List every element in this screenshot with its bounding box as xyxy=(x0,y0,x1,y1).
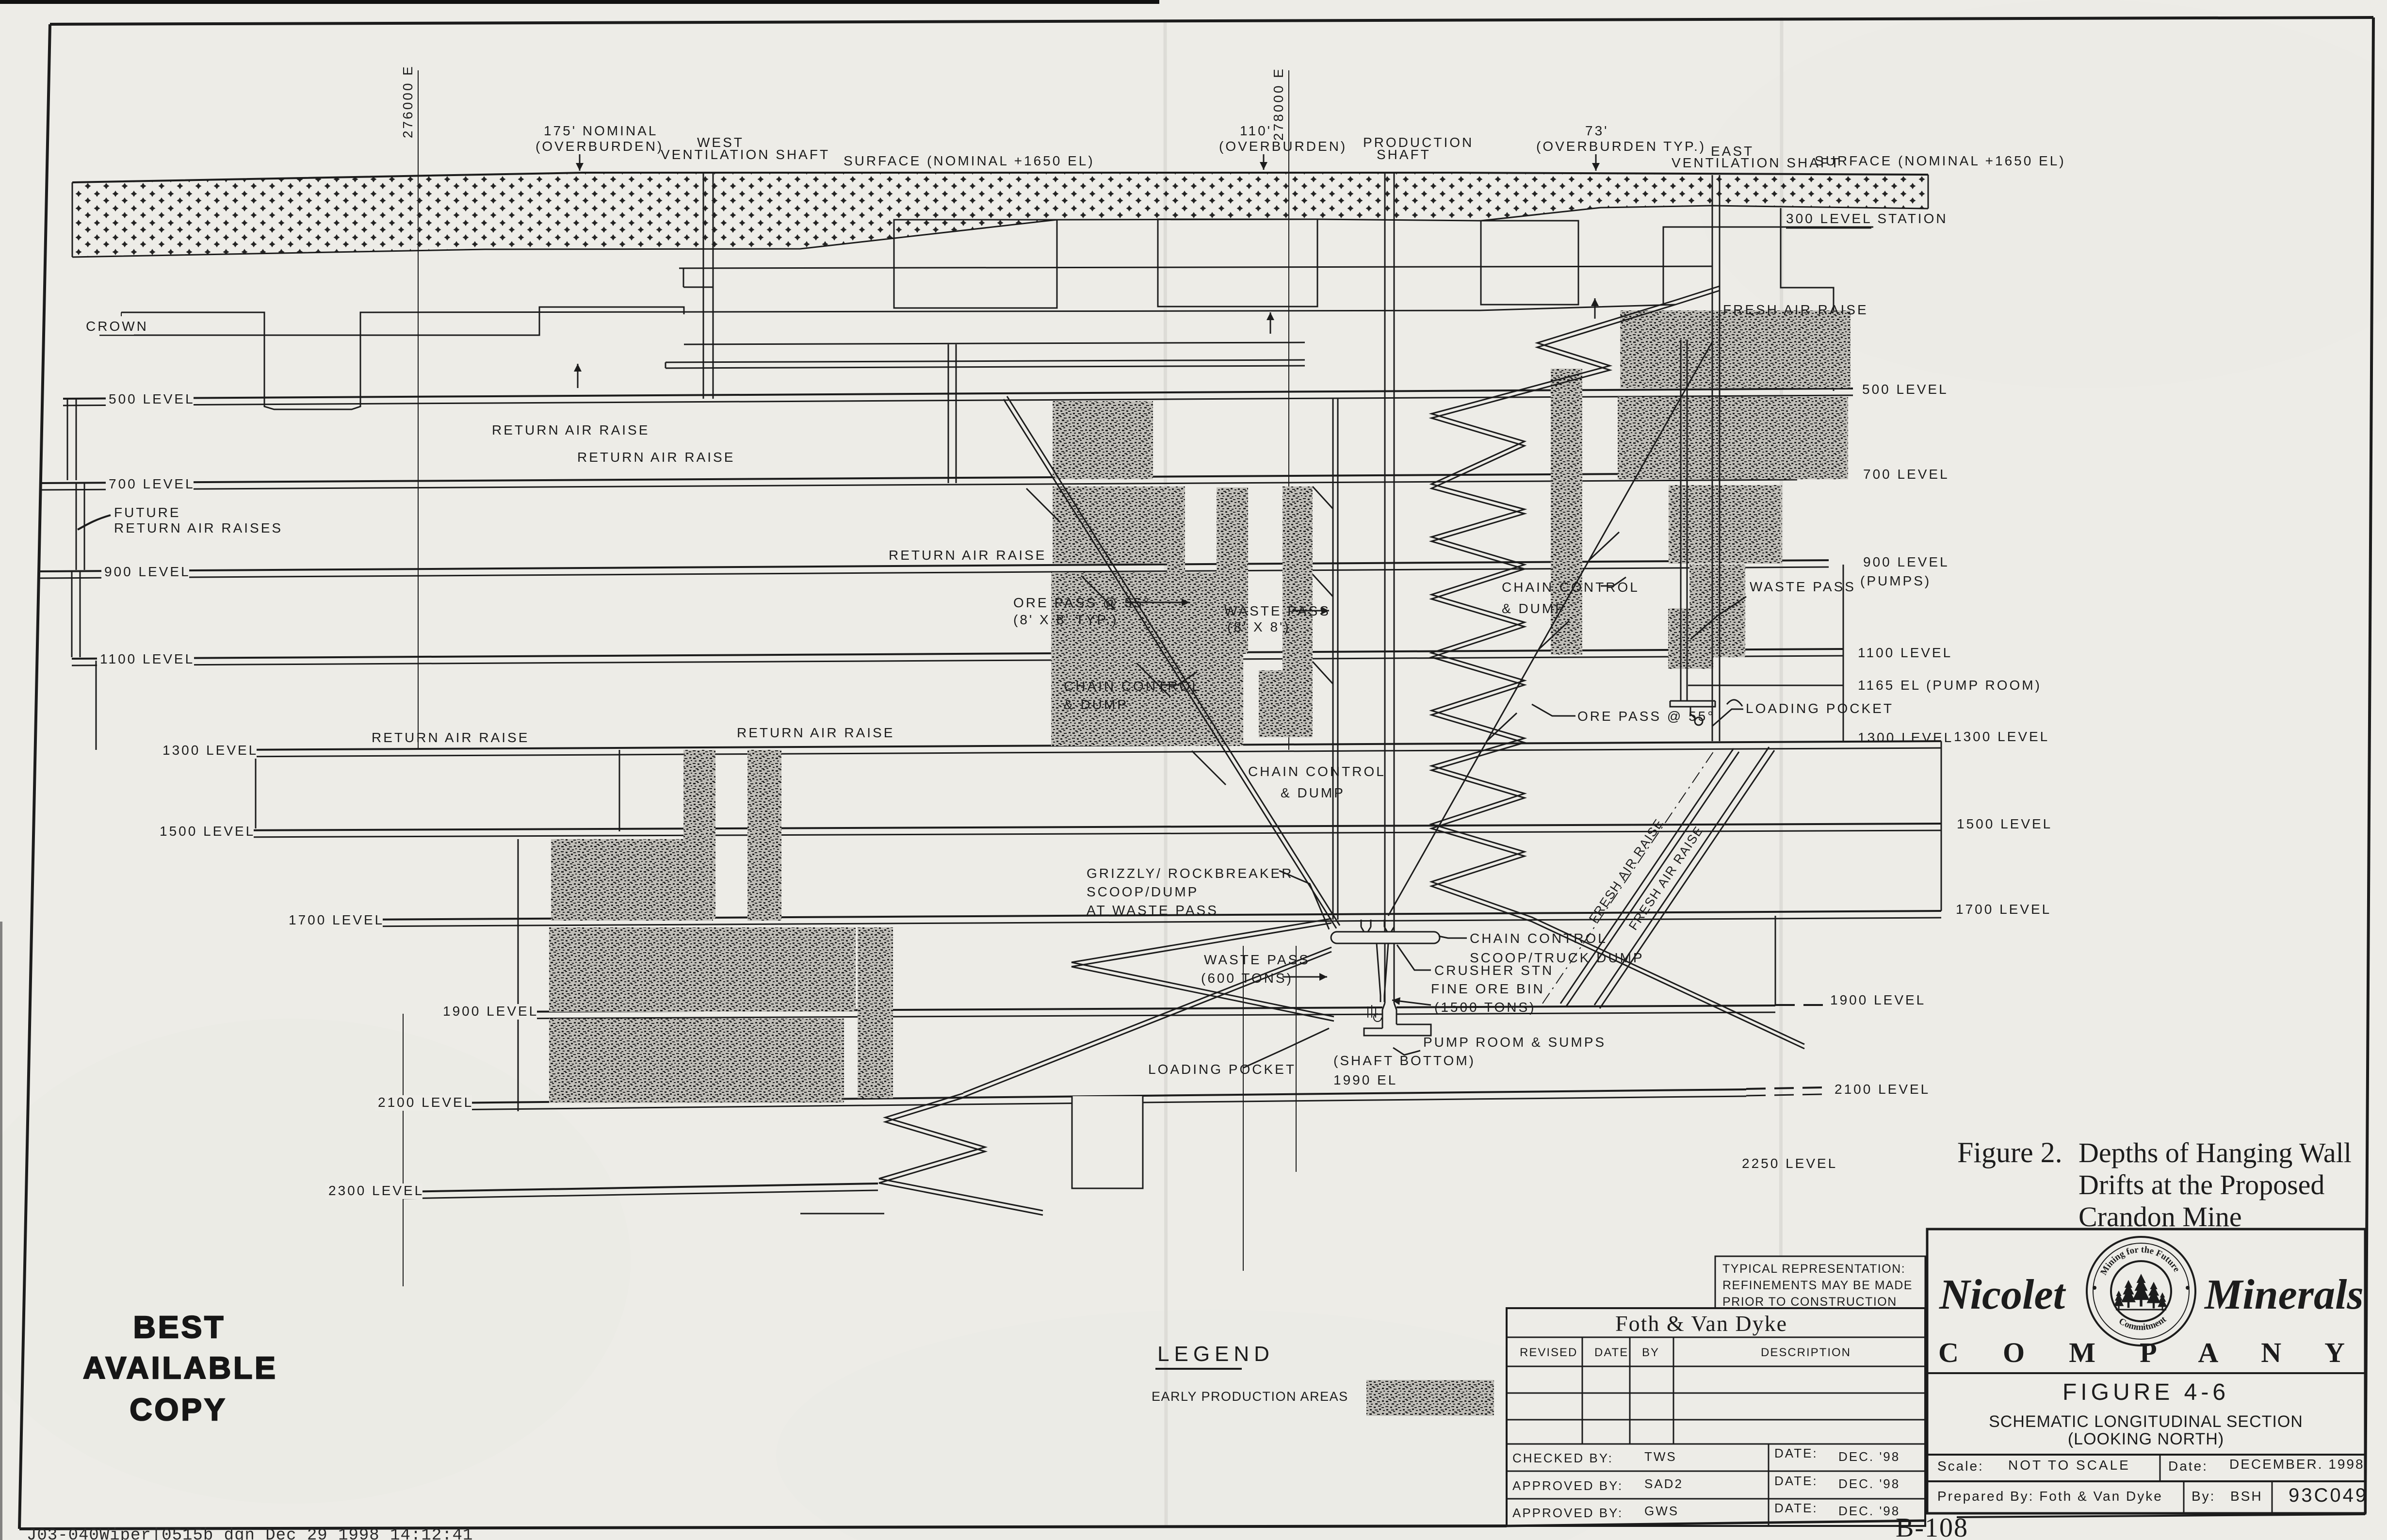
gray block 900-1300 big xyxy=(1051,572,1243,746)
band right edge xyxy=(1928,175,1929,209)
svg-text:Date:: Date: xyxy=(2168,1459,2208,1474)
arrow down 73 xyxy=(1595,154,1597,171)
gray column east tall xyxy=(1551,369,1582,655)
svg-text:RETURN AIR RAISE: RETURN AIR RAISE xyxy=(492,422,650,438)
svg-text:278000 E: 278000 E xyxy=(1271,67,1286,141)
svg-text:RETURN AIR RAISE: RETURN AIR RAISE xyxy=(737,725,894,740)
waste pass chute y=1003 xyxy=(1313,486,1333,509)
arrow up 110 xyxy=(1270,312,1271,334)
svg-text:EARLY PRODUCTION AREAS: EARLY PRODUCTION AREAS xyxy=(1152,1389,1348,1404)
label CROWN left xyxy=(83,319,134,335)
svg-text:SCHEMATIC LONGITUDINAL SECTION: SCHEMATIC LONGITUDINAL SECTION xyxy=(1989,1412,2303,1431)
svg-text:PUMP ROOM & SUMPS: PUMP ROOM & SUMPS xyxy=(1423,1035,1606,1050)
svg-text:& DUMP: & DUMP xyxy=(1064,697,1128,712)
gray column 700-1100 b xyxy=(1217,487,1248,654)
gray block 1100-1300 right xyxy=(1259,670,1313,737)
chain control chute at level y=1546 xyxy=(1192,751,1226,785)
svg-text:1900 LEVEL: 1900 LEVEL xyxy=(443,1004,538,1019)
step 1700-1900 right xyxy=(1775,916,1776,1005)
svg-text:Foth & Van Dyke: Foth & Van Dyke xyxy=(1615,1311,1787,1336)
fresh air raise 2 xyxy=(1594,747,1769,1005)
gray block 1100-1300 east xyxy=(1668,608,1713,669)
svg-text:700 LEVEL: 700 LEVEL xyxy=(1863,467,1949,482)
svg-text:FRESH AIR RAISE: FRESH AIR RAISE xyxy=(1723,302,1868,317)
svg-text:DATE:: DATE: xyxy=(1774,1446,1818,1460)
logo trees xyxy=(2121,1280,2136,1308)
gray column 1300-1700 a xyxy=(683,750,715,919)
east step 900-1300 xyxy=(1843,565,1844,742)
svg-text:& DUMP: & DUMP xyxy=(1281,785,1345,800)
svg-text:SHAFT: SHAFT xyxy=(1377,147,1431,162)
svg-text:ORE PASS @ 55°: ORE PASS @ 55° xyxy=(1577,709,1715,724)
gray block 700-900 east xyxy=(1669,485,1782,564)
svg-text:1990 EL: 1990 EL xyxy=(1333,1072,1397,1087)
svg-text:Nicolet: Nicolet xyxy=(1939,1271,2066,1318)
company logo xyxy=(2087,1237,2195,1345)
svg-text:1500 LEVEL: 1500 LEVEL xyxy=(1957,816,2052,831)
svg-text:TYPICAL REPRESENTATION:: TYPICAL REPRESENTATION: xyxy=(1722,1262,1905,1276)
east ore pass chute y=1155 xyxy=(1589,532,1619,560)
svg-text:REFINEMENTS MAY BE MADE: REFINEMENTS MAY BE MADE xyxy=(1722,1279,1913,1292)
fold crease right xyxy=(1781,17,1782,1516)
svg-text:RETURN AIR RAISE: RETURN AIR RAISE xyxy=(372,730,529,745)
svg-text:CHAIN CONTROL: CHAIN CONTROL xyxy=(1064,679,1202,694)
west return air raise duct xyxy=(948,344,949,483)
chain control chute at level y=1005 xyxy=(1026,488,1060,522)
label 700 LEVEL left xyxy=(106,477,194,492)
1900 level line xyxy=(511,1005,1775,1012)
label 500 LEVEL left xyxy=(106,392,194,407)
svg-text:Crandon Mine: Crandon Mine xyxy=(2078,1201,2242,1232)
label 1500 LEVEL left xyxy=(157,824,254,840)
svg-text:1300 LEVEL: 1300 LEVEL xyxy=(1954,729,2049,744)
svg-text:276000 E: 276000 E xyxy=(400,65,415,138)
label 2300 LEVEL left xyxy=(325,1183,422,1199)
svg-text:(OVERBURDEN TYP.): (OVERBURDEN TYP.) xyxy=(1536,139,1706,154)
label 1900 LEVEL left xyxy=(440,1004,537,1020)
notch 2 (110ft overburden ref) xyxy=(1158,219,1317,307)
left step 1100-1300 xyxy=(96,661,97,750)
lower zigzag below 2100 xyxy=(879,1098,1043,1215)
frame border xyxy=(50,17,2373,24)
700 level line xyxy=(40,473,1797,483)
east collar step xyxy=(1781,208,1834,391)
notch 1 (175ft overburden ref) xyxy=(894,220,1057,308)
step 1500-2100 left boundary xyxy=(518,839,519,1111)
svg-text:1500 LEVEL: 1500 LEVEL xyxy=(160,824,255,839)
svg-text:SURFACE (NOMINAL +1650 EL): SURFACE (NOMINAL +1650 EL) xyxy=(1815,153,2066,168)
svg-text:By:: By: xyxy=(2192,1489,2215,1504)
shaft bottom structure xyxy=(1364,1003,1431,1036)
svg-text:500 LEVEL: 500 LEVEL xyxy=(109,391,195,406)
bedrock line xyxy=(72,206,1928,257)
svg-text:1300 LEVEL: 1300 LEVEL xyxy=(1858,730,1953,745)
west ventilation shaft xyxy=(703,173,704,399)
svg-text:SURFACE (NOMINAL +1650 EL): SURFACE (NOMINAL +1650 EL) xyxy=(844,153,1095,168)
svg-text:RETURN AIR RAISES: RETURN AIR RAISES xyxy=(114,520,283,535)
svg-text:1700 LEVEL: 1700 LEVEL xyxy=(289,912,384,927)
svg-text:175' NOMINAL: 175' NOMINAL xyxy=(544,123,658,138)
svg-text:1165 EL (PUMP ROOM): 1165 EL (PUMP ROOM) xyxy=(1858,678,2042,693)
left step 1300-1500 xyxy=(255,755,257,828)
svg-text:73': 73' xyxy=(1585,123,1609,138)
gray block 1700-1900 xyxy=(549,927,856,1012)
2300 level line xyxy=(403,1183,878,1192)
svg-text:DECEMBER. 1998: DECEMBER. 1998 xyxy=(2229,1457,2365,1472)
gray column 900-1100 east xyxy=(1689,565,1745,657)
ramp V between 1700-2100 xyxy=(1072,923,1334,1021)
svg-text:RETURN AIR RAISE: RETURN AIR RAISE xyxy=(889,548,1046,563)
gray block 700-900 west xyxy=(1053,486,1184,564)
crown step outline P with notches xyxy=(99,307,684,335)
left raise duct 900-1100 xyxy=(71,571,73,657)
pump room tee 1165 xyxy=(1670,701,1715,707)
crown inner outline Q xyxy=(121,305,1675,409)
scoop funnels above crusher xyxy=(1361,927,1364,932)
svg-text:NOT TO SCALE: NOT TO SCALE xyxy=(2008,1458,2130,1473)
svg-text:1300 LEVEL: 1300 LEVEL xyxy=(162,743,258,758)
ore pass at 55 deg (west) xyxy=(1004,399,1336,928)
svg-text:Drifts at the Proposed: Drifts at the Proposed xyxy=(2078,1169,2324,1200)
svg-text:DEC. '98: DEC. '98 xyxy=(1838,1504,1900,1518)
svg-text:LOADING POCKET: LOADING POCKET xyxy=(1746,701,1894,716)
gray block 1900-2100 xyxy=(549,1019,844,1103)
svg-text:CRUSHER STN: CRUSHER STN xyxy=(1434,963,1554,978)
left raise duct 700-900 xyxy=(76,483,77,570)
leader vertical x2563 xyxy=(1243,946,1244,1271)
label 1300 LEVEL left xyxy=(160,743,257,759)
svg-text:VENTILATION SHAFT: VENTILATION SHAFT xyxy=(661,147,830,162)
ore pass at 55 deg (east) xyxy=(1388,342,1712,916)
svg-text:Depths of Hanging Wall: Depths of Hanging Wall xyxy=(2078,1137,2352,1168)
label 1100 LEVEL left xyxy=(97,652,194,667)
fresh air raise centerline xyxy=(1543,748,1716,1004)
svg-text:93C049: 93C049 xyxy=(2289,1485,2368,1506)
svg-text:DATE:: DATE: xyxy=(1774,1474,1818,1488)
overburden stipple band xyxy=(72,173,1928,257)
svg-text:TWS: TWS xyxy=(1644,1449,1677,1464)
leader vertical x831 xyxy=(403,1014,404,1286)
left raise duct 500-700 xyxy=(67,399,68,480)
300 level station branch xyxy=(1663,227,1873,305)
svg-text:900 LEVEL: 900 LEVEL xyxy=(1863,554,1949,569)
fresh air raise 1 xyxy=(1560,748,1734,1004)
svg-text:300 LEVEL STATION: 300 LEVEL STATION xyxy=(1786,211,1948,226)
svg-text:SCOOP/DUMP: SCOOP/DUMP xyxy=(1087,884,1199,899)
crown dash tick xyxy=(121,312,122,334)
svg-text:(PUMPS): (PUMPS) xyxy=(1860,573,1931,588)
fine ore bin xyxy=(1377,943,1380,995)
svg-text:Scale:: Scale: xyxy=(1937,1459,1984,1474)
svg-text:DATE: DATE xyxy=(1594,1346,1628,1359)
900 level line xyxy=(40,560,1829,571)
svg-text:2250 LEVEL: 2250 LEVEL xyxy=(1742,1156,1837,1171)
right stope box 1300-1700 xyxy=(1941,741,1942,911)
leader vertical x2672 xyxy=(1296,946,1297,1172)
underline 300 level xyxy=(1786,227,1871,229)
svg-text:CROWN: CROWN xyxy=(86,319,148,334)
svg-text:Figure 2.: Figure 2. xyxy=(1957,1136,2062,1168)
east waste pass vertical xyxy=(1680,340,1682,701)
svg-text:2300 LEVEL: 2300 LEVEL xyxy=(328,1183,424,1198)
gray block 1500-1700 xyxy=(551,839,713,921)
east ventilation shaft xyxy=(1712,175,1713,741)
nicolet minerals title block xyxy=(1927,1229,2365,1513)
svg-text:1100 LEVEL: 1100 LEVEL xyxy=(100,651,195,666)
svg-text:CHAIN CONTROL: CHAIN CONTROL xyxy=(1470,931,1608,946)
svg-text:DEC. '98: DEC. '98 xyxy=(1838,1449,1900,1464)
svg-text:FINE ORE BIN: FINE ORE BIN xyxy=(1431,981,1545,996)
step 1300-1500 mid xyxy=(619,750,620,831)
arrow up 175 xyxy=(577,364,579,388)
loading pocket bulb east xyxy=(1695,717,1703,725)
label 900 LEVEL left xyxy=(101,565,189,580)
gray block 500-700 east xyxy=(1618,397,1848,479)
svg-text:(8' X 8' TYP.): (8' X 8' TYP.) xyxy=(1013,612,1119,627)
east ore pass chute y=1338 xyxy=(1539,621,1569,649)
legend swatch xyxy=(1366,1380,1494,1416)
1165 EL pump room line xyxy=(1688,685,1843,686)
svg-text:FIGURE 4-6: FIGURE 4-6 xyxy=(2062,1379,2229,1405)
gray column 700-1300 xyxy=(1283,486,1313,737)
grid line 276000 E xyxy=(418,70,419,750)
L1 left step xyxy=(683,287,713,288)
arrow down 175 xyxy=(579,154,581,171)
typical representation note box xyxy=(1715,1256,1925,1310)
svg-text:GRIZZLY/ ROCKBREAKER: GRIZZLY/ ROCKBREAKER xyxy=(1087,866,1293,881)
svg-text:COPY: COPY xyxy=(130,1392,227,1427)
surface line xyxy=(72,173,1928,182)
svg-text:DATE:: DATE: xyxy=(1774,1501,1818,1515)
svg-text:J03-040Wiper|0515b dgn Dec 29: J03-040Wiper|0515b dgn Dec 29 1998 14:12… xyxy=(27,1526,473,1540)
waste pass chute y=1184 xyxy=(1313,574,1333,597)
svg-text:1100 LEVEL: 1100 LEVEL xyxy=(1858,645,1952,660)
svg-text:700 LEVEL: 700 LEVEL xyxy=(109,476,195,491)
svg-text:CHECKED BY:: CHECKED BY: xyxy=(1512,1451,1613,1465)
svg-text:Minerals: Minerals xyxy=(2204,1271,2364,1318)
svg-text:APPROVED BY:: APPROVED BY: xyxy=(1512,1478,1623,1493)
arrow down 110 xyxy=(1263,154,1265,170)
band left edge xyxy=(72,182,73,257)
svg-text:2100 LEVEL: 2100 LEVEL xyxy=(1835,1082,1930,1097)
east ore pass chute y=1528 xyxy=(1487,713,1517,741)
crusher station bar xyxy=(1331,932,1440,943)
svg-text:AT WASTE PASS: AT WASTE PASS xyxy=(1087,903,1218,918)
svg-text:(LOOKING NORTH): (LOOKING NORTH) xyxy=(2068,1430,2224,1448)
left table bottom xyxy=(1507,1521,1926,1526)
arrow up 73 xyxy=(1594,298,1596,319)
svg-text:WASTE PASS: WASTE PASS xyxy=(1204,952,1310,967)
svg-text:BY: BY xyxy=(1642,1346,1659,1359)
svg-text:BSH: BSH xyxy=(2230,1489,2263,1504)
svg-text:B-108: B-108 xyxy=(1896,1513,1968,1540)
svg-text:AVAILABLE: AVAILABLE xyxy=(83,1350,278,1385)
west 300-level drift L2 xyxy=(666,360,1305,362)
svg-text:(600 TONS): (600 TONS) xyxy=(1201,971,1293,986)
500 level line xyxy=(63,389,1853,399)
svg-text:110': 110' xyxy=(1240,123,1272,138)
gray column 1300-1700 b xyxy=(747,750,781,921)
notch 3 (73ft overburden ref) xyxy=(1481,221,1578,305)
2100 level line xyxy=(449,1089,1746,1103)
1300 level line xyxy=(230,741,1941,750)
svg-text:BEST: BEST xyxy=(133,1310,226,1345)
svg-text:RETURN AIR RAISE: RETURN AIR RAISE xyxy=(577,450,735,465)
svg-text:Prepared By: Foth & Van Dyke: Prepared By: Foth & Van Dyke xyxy=(1937,1489,2163,1504)
gray column 1700-2100 xyxy=(858,927,893,1098)
waste pass (west vertical) xyxy=(1332,398,1334,920)
svg-text:LOADING POCKET: LOADING POCKET xyxy=(1148,1062,1296,1077)
chain control chute at level y=1185 xyxy=(1081,576,1115,610)
svg-text:500 LEVEL: 500 LEVEL xyxy=(1862,382,1949,397)
svg-text:REVISED: REVISED xyxy=(1520,1346,1577,1359)
notch below 2100 xyxy=(1072,1096,1143,1188)
svg-text:2100 LEVEL: 2100 LEVEL xyxy=(378,1095,473,1110)
pump room ticks xyxy=(1367,1006,1368,1018)
svg-text:DESCRIPTION: DESCRIPTION xyxy=(1761,1346,1851,1359)
svg-text:(8' X 8'): (8' X 8') xyxy=(1227,619,1291,634)
svg-text:CHAIN CONTROL: CHAIN CONTROL xyxy=(1248,764,1386,779)
svg-text:& DUMP: & DUMP xyxy=(1502,601,1566,616)
production shaft xyxy=(1384,173,1386,1003)
grid line 278000 E xyxy=(1288,70,1289,750)
chain control chute at level y=1365 xyxy=(1137,663,1170,697)
svg-text:APPROVED BY:: APPROVED BY: xyxy=(1512,1506,1623,1520)
1700 level line xyxy=(354,911,1941,920)
scan artifact top edge xyxy=(0,0,1159,4)
fold crease left xyxy=(1165,19,1167,1528)
svg-text:(OVERBURDEN): (OVERBURDEN) xyxy=(1219,139,1347,154)
svg-text:WASTE PASS: WASTE PASS xyxy=(1750,579,1856,594)
svg-text:LEGEND: LEGEND xyxy=(1157,1342,1274,1366)
1100 level line xyxy=(72,649,1843,659)
b108 right line xyxy=(1957,1514,2365,1517)
gray block 500-700 west xyxy=(1053,401,1153,479)
svg-text:(OVERBURDEN): (OVERBURDEN) xyxy=(536,139,664,154)
waste pass chute y=1364 xyxy=(1313,662,1333,684)
lower zigzag flat xyxy=(800,1213,884,1215)
svg-text:(SHAFT BOTTOM): (SHAFT BOTTOM) xyxy=(1333,1053,1476,1068)
svg-text:FUTURE: FUTURE xyxy=(114,505,181,520)
svg-text:1900 LEVEL: 1900 LEVEL xyxy=(1830,992,1926,1007)
gray block 300-500 east xyxy=(1620,310,1851,388)
ramp cross leg to 2100 xyxy=(963,952,1332,1097)
svg-text:SAD2: SAD2 xyxy=(1644,1476,1683,1491)
1500 level line xyxy=(233,824,1941,830)
west drift line L2a xyxy=(684,342,1305,344)
sub-band line L1 xyxy=(679,266,1712,268)
decline ramp zigzag xyxy=(1431,291,1804,1049)
label 1700 LEVEL left xyxy=(286,913,383,928)
svg-text:GWS: GWS xyxy=(1644,1504,1679,1518)
label 2100 LEVEL left xyxy=(375,1095,472,1111)
svg-text:PRIOR TO CONSTRUCTION: PRIOR TO CONSTRUCTION xyxy=(1722,1295,1897,1309)
svg-text:1700 LEVEL: 1700 LEVEL xyxy=(1956,902,2051,917)
svg-text:900 LEVEL: 900 LEVEL xyxy=(104,564,191,579)
foth van dyke table xyxy=(1507,1308,1925,1526)
svg-text:DEC. '98: DEC. '98 xyxy=(1838,1476,1900,1491)
gray column 700-1100 a xyxy=(1167,486,1185,651)
svg-text:(1500 TONS): (1500 TONS) xyxy=(1434,1000,1536,1015)
